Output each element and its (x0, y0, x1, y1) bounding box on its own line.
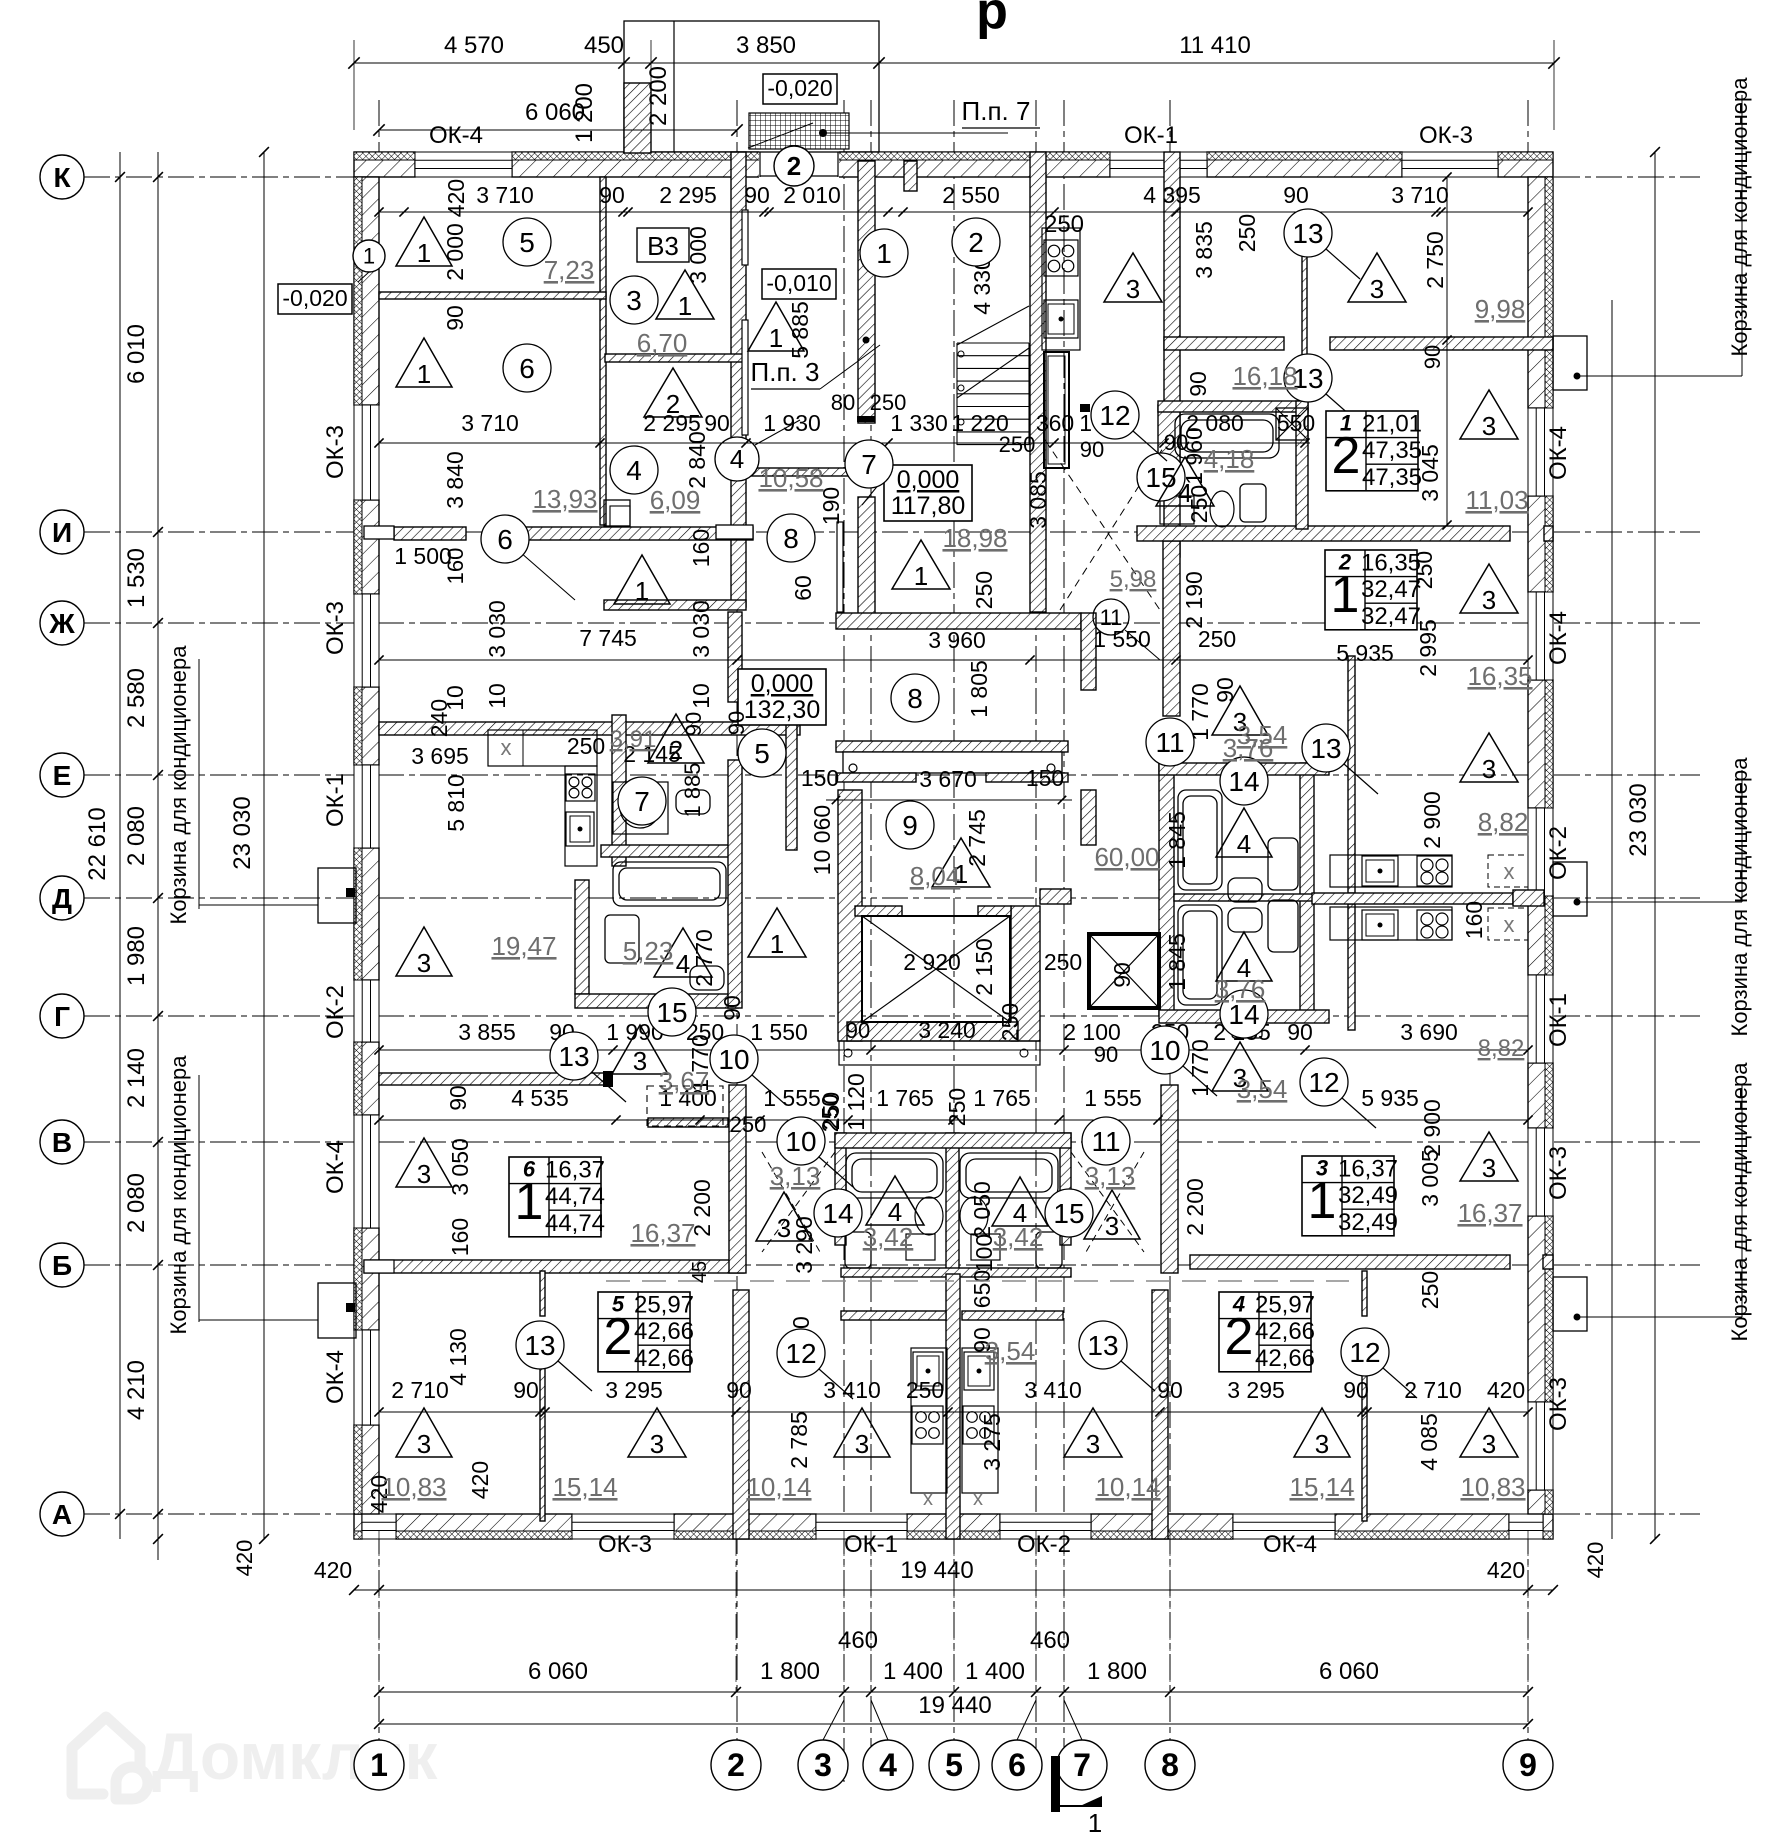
svg-text:1 800: 1 800 (1087, 1658, 1147, 1685)
svg-text:6,70: 6,70 (637, 328, 688, 358)
svg-text:2 785: 2 785 (786, 1411, 812, 1469)
svg-text:ОК-4: ОК-4 (1263, 1531, 1317, 1558)
svg-text:550: 550 (1277, 410, 1315, 436)
svg-text:117,80: 117,80 (891, 492, 966, 520)
svg-text:250: 250 (1044, 949, 1082, 975)
svg-text:3: 3 (1370, 274, 1384, 304)
svg-text:23 030: 23 030 (229, 796, 256, 869)
svg-text:1: 1 (1308, 1172, 1337, 1230)
svg-text:16,18: 16,18 (1232, 361, 1297, 391)
svg-text:420: 420 (443, 179, 469, 217)
svg-text:90: 90 (599, 182, 625, 208)
svg-text:В3: В3 (647, 231, 679, 261)
svg-text:1: 1 (914, 561, 928, 591)
svg-text:3,13: 3,13 (1085, 1161, 1136, 1191)
svg-text:44,74: 44,74 (545, 1210, 605, 1237)
svg-text:Г: Г (54, 1001, 70, 1032)
svg-text:14: 14 (822, 1198, 853, 1229)
svg-text:18,98: 18,98 (942, 523, 1007, 553)
svg-text:2 710: 2 710 (391, 1377, 449, 1403)
svg-text:420: 420 (1583, 1542, 1608, 1579)
svg-text:А: А (52, 1499, 72, 1530)
svg-text:4 210: 4 210 (123, 1360, 150, 1420)
svg-text:60,00: 60,00 (1094, 842, 1159, 872)
svg-text:90: 90 (1164, 430, 1188, 455)
svg-text:6: 6 (519, 353, 535, 384)
svg-text:90: 90 (846, 1018, 870, 1043)
svg-text:3,13: 3,13 (770, 1161, 821, 1191)
svg-text:Е: Е (53, 760, 72, 791)
svg-text:3 710: 3 710 (1391, 182, 1449, 208)
svg-text:3 855: 3 855 (458, 1019, 516, 1045)
svg-text:1 845: 1 845 (1164, 933, 1190, 991)
svg-text:15,14: 15,14 (552, 1472, 617, 1502)
svg-text:3 835: 3 835 (1191, 221, 1217, 279)
svg-text:2 770: 2 770 (691, 929, 717, 987)
svg-text:1: 1 (370, 1747, 388, 1783)
svg-text:19,47: 19,47 (491, 931, 556, 961)
svg-text:2 580: 2 580 (123, 668, 150, 728)
svg-text:3 275: 3 275 (979, 1413, 1005, 1471)
svg-text:3,76: 3,76 (1223, 733, 1274, 763)
svg-text:ОК-1: ОК-1 (1124, 122, 1178, 149)
svg-text:2 050: 2 050 (969, 1181, 995, 1239)
svg-text:10: 10 (1149, 1035, 1180, 1066)
svg-text:13: 13 (558, 1041, 589, 1072)
svg-text:1 800: 1 800 (760, 1658, 820, 1685)
svg-text:90: 90 (1343, 1377, 1369, 1403)
svg-text:11,03: 11,03 (1465, 485, 1528, 515)
svg-text:-0,020: -0,020 (767, 75, 832, 101)
svg-text:2 190: 2 190 (1181, 571, 1207, 629)
svg-text:42,66: 42,66 (1255, 1318, 1315, 1345)
svg-text:42,66: 42,66 (634, 1318, 694, 1345)
svg-text:-0,020: -0,020 (282, 285, 347, 311)
svg-text:250: 250 (567, 733, 605, 759)
svg-text:1: 1 (417, 359, 431, 389)
svg-text:5 935: 5 935 (1361, 1085, 1419, 1111)
svg-text:42,66: 42,66 (634, 1345, 694, 1372)
svg-text:47,35: 47,35 (1362, 437, 1422, 464)
svg-text:1 885: 1 885 (680, 762, 705, 817)
svg-text:2 295: 2 295 (659, 182, 717, 208)
svg-text:3 710: 3 710 (476, 182, 534, 208)
svg-text:5,23: 5,23 (623, 936, 674, 966)
svg-text:3 005: 3 005 (1417, 1149, 1443, 1207)
svg-text:1 555: 1 555 (763, 1085, 821, 1111)
svg-text:ОК-3: ОК-3 (598, 1531, 652, 1558)
svg-text:3 240: 3 240 (918, 1017, 976, 1043)
svg-text:250: 250 (870, 390, 907, 415)
svg-text:5: 5 (945, 1747, 963, 1783)
svg-text:10,83: 10,83 (381, 1472, 446, 1502)
svg-text:1 765: 1 765 (973, 1085, 1031, 1111)
svg-text:250: 250 (999, 432, 1036, 457)
svg-text:ОК-4: ОК-4 (322, 1350, 349, 1404)
svg-text:Корзина для кондиционера: Корзина для кондиционера (1727, 757, 1752, 1037)
svg-text:1: 1 (678, 291, 692, 321)
svg-text:1 550: 1 550 (750, 1019, 808, 1045)
svg-text:4 130: 4 130 (445, 1328, 471, 1386)
svg-text:420: 420 (1487, 1557, 1525, 1583)
svg-text:10,83: 10,83 (1460, 1472, 1525, 1502)
svg-text:25,97: 25,97 (634, 1292, 694, 1319)
svg-text:15,14: 15,14 (1289, 1472, 1354, 1502)
svg-text:1: 1 (769, 323, 783, 353)
svg-text:150: 150 (801, 765, 839, 791)
svg-text:1 530: 1 530 (123, 548, 150, 608)
svg-text:90: 90 (1094, 1042, 1118, 1067)
svg-text:2 080: 2 080 (123, 1173, 150, 1233)
svg-text:250: 250 (1198, 626, 1236, 652)
svg-text:3: 3 (1482, 585, 1496, 615)
svg-text:90: 90 (1157, 1377, 1183, 1403)
svg-text:2 150: 2 150 (971, 938, 997, 996)
svg-text:13: 13 (1087, 1330, 1118, 1361)
svg-text:2: 2 (968, 227, 984, 258)
svg-text:420: 420 (467, 1461, 493, 1499)
svg-text:3 695: 3 695 (411, 743, 469, 769)
svg-text:3,76: 3,76 (1215, 974, 1266, 1004)
svg-text:1: 1 (1331, 566, 1360, 624)
svg-text:10 060: 10 060 (809, 805, 835, 875)
svg-text:90: 90 (1287, 1019, 1313, 1045)
svg-text:7: 7 (634, 786, 650, 817)
svg-text:13: 13 (524, 1330, 555, 1361)
svg-text:2: 2 (669, 735, 683, 765)
svg-text:90: 90 (1420, 345, 1445, 369)
svg-text:4: 4 (730, 444, 744, 474)
svg-text:2 080: 2 080 (123, 806, 150, 866)
svg-text:2 710: 2 710 (1404, 1377, 1462, 1403)
svg-text:8: 8 (907, 683, 923, 714)
svg-text:Корзина для кондиционера: Корзина для кондиционера (1727, 1062, 1752, 1342)
svg-text:Ж: Ж (48, 608, 75, 639)
svg-text:0,000: 0,000 (897, 466, 960, 494)
svg-text:2 550: 2 550 (942, 182, 1000, 208)
svg-text:10: 10 (442, 685, 468, 711)
svg-text:2: 2 (666, 389, 680, 419)
svg-text:16,37: 16,37 (630, 1218, 695, 1248)
svg-text:132,30: 132,30 (744, 696, 820, 724)
svg-text:44,74: 44,74 (545, 1183, 605, 1210)
svg-text:ОК-2: ОК-2 (1017, 1531, 1071, 1558)
svg-text:10: 10 (484, 683, 510, 709)
svg-text:1: 1 (363, 244, 375, 269)
svg-text:16,37: 16,37 (1338, 1156, 1398, 1183)
svg-text:90: 90 (719, 995, 745, 1021)
svg-text:9,98: 9,98 (1475, 294, 1526, 324)
svg-text:4: 4 (626, 455, 642, 486)
svg-text:9: 9 (902, 810, 918, 841)
svg-text:420: 420 (232, 1540, 257, 1577)
svg-text:11: 11 (1100, 605, 1123, 630)
svg-text:14: 14 (1228, 766, 1259, 797)
svg-text:10: 10 (688, 683, 714, 709)
svg-text:1 770: 1 770 (1187, 1039, 1213, 1097)
svg-text:6: 6 (1008, 1747, 1026, 1783)
svg-text:3 710: 3 710 (461, 410, 519, 436)
svg-text:25,97: 25,97 (1255, 1292, 1315, 1319)
svg-text:ОК-4: ОК-4 (429, 122, 483, 149)
svg-text:3: 3 (1482, 1153, 1496, 1183)
svg-text:32,49: 32,49 (1338, 1182, 1398, 1209)
svg-text:3: 3 (1482, 1429, 1496, 1459)
svg-text:2: 2 (1332, 427, 1361, 485)
svg-text:11: 11 (1155, 727, 1184, 758)
svg-text:5 935: 5 935 (1336, 640, 1394, 666)
svg-text:2: 2 (604, 1308, 633, 1366)
svg-text:13: 13 (1292, 218, 1323, 249)
svg-text:2: 2 (1225, 1308, 1254, 1366)
svg-text:7 745: 7 745 (579, 625, 637, 651)
svg-text:10: 10 (785, 1126, 816, 1157)
svg-text:И: И (52, 517, 72, 548)
svg-text:-0,010: -0,010 (766, 270, 831, 296)
svg-text:5: 5 (519, 227, 535, 258)
svg-text:22 610: 22 610 (84, 807, 111, 880)
svg-text:16,35: 16,35 (1467, 661, 1532, 691)
svg-text:650: 650 (969, 1270, 995, 1308)
svg-text:8: 8 (783, 523, 799, 554)
svg-text:360: 360 (1036, 410, 1074, 436)
svg-text:6 060: 6 060 (1319, 1658, 1379, 1685)
svg-text:Корзина для кондиционера: Корзина для кондиционера (166, 1055, 191, 1335)
svg-text:250: 250 (997, 1003, 1023, 1041)
svg-text:10,14: 10,14 (746, 1472, 811, 1502)
svg-text:250: 250 (730, 1112, 767, 1137)
svg-text:1: 1 (1088, 1808, 1102, 1836)
svg-text:4 085: 4 085 (1416, 1413, 1442, 1471)
svg-text:5,98: 5,98 (1110, 566, 1157, 593)
svg-text:4 570: 4 570 (444, 32, 504, 59)
svg-text:3 850: 3 850 (736, 32, 796, 59)
svg-text:3,42: 3,42 (993, 1222, 1044, 1252)
svg-text:47,35: 47,35 (1362, 464, 1422, 491)
svg-text:420: 420 (314, 1557, 352, 1583)
svg-text:3 030: 3 030 (688, 600, 714, 658)
svg-text:11 410: 11 410 (1179, 32, 1251, 59)
svg-text:3: 3 (417, 1159, 431, 1189)
svg-text:32,49: 32,49 (1338, 1209, 1398, 1236)
svg-text:6: 6 (497, 524, 513, 555)
svg-text:90: 90 (1283, 182, 1309, 208)
svg-text:3: 3 (814, 1747, 832, 1783)
svg-text:1: 1 (515, 1173, 544, 1231)
svg-text:15: 15 (656, 997, 687, 1028)
svg-text:2 920: 2 920 (903, 949, 961, 975)
svg-text:4: 4 (1178, 478, 1192, 508)
svg-text:x: x (1504, 859, 1515, 884)
svg-text:4,18: 4,18 (1204, 444, 1255, 474)
svg-text:2 840: 2 840 (684, 431, 710, 489)
svg-text:42,66: 42,66 (1255, 1345, 1315, 1372)
svg-text:3,42: 3,42 (863, 1222, 914, 1252)
svg-text:3: 3 (633, 1046, 647, 1076)
svg-text:250: 250 (1234, 214, 1260, 252)
svg-text:3 840: 3 840 (442, 451, 468, 509)
svg-text:3: 3 (1086, 1429, 1100, 1459)
svg-text:2: 2 (787, 151, 801, 181)
svg-text:3,91: 3,91 (610, 726, 657, 753)
svg-text:Корзина для кондиционера: Корзина для кондиционера (166, 645, 191, 925)
svg-text:П.п. 7: П.п. 7 (962, 96, 1031, 126)
svg-text:2 750: 2 750 (1422, 231, 1448, 289)
svg-text:ОК-2: ОК-2 (1545, 826, 1572, 880)
svg-text:3: 3 (1482, 754, 1496, 784)
svg-text:В: В (52, 1127, 72, 1158)
svg-text:7,23: 7,23 (544, 255, 595, 285)
svg-text:250: 250 (1417, 1271, 1443, 1309)
svg-text:1 980: 1 980 (123, 926, 150, 986)
svg-text:Корзина для кондиционера: Корзина для кондиционера (1727, 77, 1752, 357)
svg-text:16,37: 16,37 (545, 1157, 605, 1184)
svg-text:ОК-3: ОК-3 (1545, 1146, 1572, 1200)
svg-text:150: 150 (1026, 765, 1064, 791)
svg-text:23 030: 23 030 (1625, 783, 1652, 856)
svg-text:12: 12 (785, 1338, 816, 1369)
svg-text:Б: Б (52, 1250, 72, 1281)
svg-text:3: 3 (417, 1429, 431, 1459)
svg-text:90: 90 (724, 711, 749, 735)
svg-text:12: 12 (1099, 400, 1130, 431)
svg-text:2 000: 2 000 (442, 223, 468, 281)
svg-text:8,04: 8,04 (910, 861, 961, 891)
svg-text:15: 15 (1145, 462, 1176, 493)
svg-text:3: 3 (855, 1429, 869, 1459)
svg-text:32,47: 32,47 (1361, 576, 1421, 603)
svg-text:3: 3 (1315, 1429, 1329, 1459)
svg-text:3 030: 3 030 (484, 600, 510, 658)
svg-text:3: 3 (1482, 411, 1496, 441)
svg-text:3: 3 (777, 1213, 791, 1243)
svg-text:250: 250 (971, 571, 997, 609)
svg-text:13: 13 (1310, 733, 1341, 764)
svg-text:4 395: 4 395 (1143, 182, 1201, 208)
svg-text:250: 250 (1044, 211, 1084, 238)
svg-text:10: 10 (718, 1044, 749, 1075)
svg-text:3 670: 3 670 (919, 766, 977, 792)
svg-text:19 440: 19 440 (900, 1557, 973, 1584)
svg-text:ОК-3: ОК-3 (1545, 1377, 1572, 1431)
svg-text:ОК-4: ОК-4 (1545, 426, 1572, 480)
svg-text:9: 9 (1519, 1747, 1537, 1783)
svg-text:1 555: 1 555 (1084, 1085, 1142, 1111)
svg-text:ОК-4: ОК-4 (1545, 611, 1572, 665)
svg-text:К: К (53, 162, 71, 193)
svg-text:ОК-2: ОК-2 (322, 985, 349, 1039)
svg-text:3,54: 3,54 (985, 1336, 1036, 1366)
svg-text:x: x (1504, 912, 1515, 937)
svg-text:3: 3 (650, 1429, 664, 1459)
svg-text:1 765: 1 765 (876, 1085, 934, 1111)
svg-text:2 200: 2 200 (1182, 1178, 1208, 1236)
svg-text:90: 90 (1080, 437, 1104, 462)
svg-text:ОК-3: ОК-3 (1419, 122, 1473, 149)
svg-text:90: 90 (1185, 371, 1211, 397)
svg-text:90: 90 (442, 305, 468, 331)
svg-text:1: 1 (635, 576, 649, 606)
svg-text:60: 60 (790, 575, 816, 601)
svg-text:1 930: 1 930 (763, 410, 821, 436)
svg-text:Д: Д (52, 883, 72, 914)
svg-text:16,35: 16,35 (1361, 550, 1421, 577)
svg-text:3 410: 3 410 (1024, 1377, 1082, 1403)
svg-text:160: 160 (688, 529, 714, 567)
svg-text:90: 90 (1109, 962, 1135, 988)
svg-text:1: 1 (770, 929, 784, 959)
svg-text:ОК-3: ОК-3 (322, 601, 349, 655)
svg-text:5: 5 (754, 738, 770, 769)
svg-text:12: 12 (1349, 1337, 1380, 1368)
svg-text:90: 90 (681, 712, 706, 736)
svg-text:21,01: 21,01 (1362, 411, 1422, 438)
svg-text:x: x (501, 735, 512, 760)
svg-text:420: 420 (1487, 1377, 1525, 1403)
svg-text:160: 160 (443, 548, 468, 585)
svg-text:160: 160 (447, 1218, 473, 1256)
svg-text:90: 90 (445, 1085, 471, 1111)
svg-text:7: 7 (1073, 1747, 1091, 1783)
svg-text:11: 11 (1091, 1126, 1120, 1157)
svg-text:2 140: 2 140 (123, 1048, 150, 1108)
svg-text:3: 3 (1126, 274, 1140, 304)
svg-text:160: 160 (1461, 901, 1487, 939)
svg-text:2 100: 2 100 (1063, 1019, 1121, 1045)
svg-text:5 885: 5 885 (787, 301, 813, 359)
svg-text:4: 4 (676, 949, 690, 979)
svg-text:3 085: 3 085 (1025, 471, 1051, 529)
svg-text:6,09: 6,09 (650, 485, 701, 515)
svg-text:ОК-1: ОК-1 (1545, 993, 1572, 1047)
svg-text:ОК-4: ОК-4 (322, 1140, 349, 1194)
svg-text:45: 45 (689, 1261, 711, 1283)
svg-text:ОК-3: ОК-3 (322, 425, 349, 479)
svg-text:x: x (923, 1488, 933, 1510)
svg-text:1 400: 1 400 (965, 1658, 1025, 1685)
svg-text:3 960: 3 960 (928, 627, 986, 653)
svg-text:4 535: 4 535 (511, 1085, 569, 1111)
svg-text:3: 3 (417, 948, 431, 978)
svg-text:4: 4 (879, 1747, 897, 1783)
svg-text:90: 90 (513, 1377, 539, 1403)
svg-text:3: 3 (1105, 1211, 1119, 1241)
svg-text:7: 7 (861, 449, 877, 480)
svg-text:80: 80 (831, 390, 855, 415)
svg-text:3 295: 3 295 (605, 1377, 663, 1403)
svg-text:4: 4 (1237, 829, 1251, 859)
svg-text:90: 90 (726, 1377, 752, 1403)
svg-text:2: 2 (727, 1747, 745, 1783)
svg-text:3,67: 3,67 (659, 1066, 710, 1096)
svg-text:3 690: 3 690 (1400, 1019, 1458, 1045)
svg-text:12: 12 (1308, 1067, 1339, 1098)
svg-text:3: 3 (626, 285, 642, 316)
svg-text:1 805: 1 805 (966, 660, 992, 718)
svg-text:6 060: 6 060 (528, 1658, 588, 1685)
svg-text:8,82: 8,82 (1478, 1035, 1525, 1062)
svg-text:6 010: 6 010 (123, 324, 150, 384)
svg-text:8,82: 8,82 (1478, 807, 1529, 837)
svg-text:16,37: 16,37 (1457, 1198, 1522, 1228)
svg-text:x: x (973, 1488, 983, 1510)
svg-text:2 900: 2 900 (1419, 791, 1445, 849)
svg-text:1 400: 1 400 (883, 1658, 943, 1685)
svg-text:450: 450 (584, 32, 624, 59)
svg-text:19 440: 19 440 (918, 1692, 991, 1719)
svg-text:10,14: 10,14 (1095, 1472, 1160, 1502)
svg-text:10,58: 10,58 (758, 463, 823, 493)
